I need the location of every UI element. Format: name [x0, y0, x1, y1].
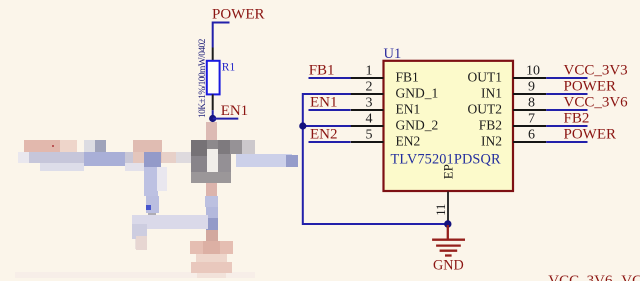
pin 6	[513, 128, 546, 143]
svg-text:7: 7	[528, 112, 535, 127]
svg-text:10K±1%/100mW/0402: 10K±1%/100mW/0402	[198, 38, 208, 118]
svg-text:EN2: EN2	[396, 134, 421, 149]
under-band light	[40, 163, 84, 171]
svg-text:EN1: EN1	[221, 103, 249, 119]
wire pin4 tee	[303, 125, 351, 127]
svg-text:2: 2	[366, 80, 373, 95]
svg-text:4: 4	[366, 112, 373, 127]
pin 2	[351, 80, 384, 95]
svg-text:EP: EP	[441, 164, 456, 179]
blue vertical left-mid	[144, 152, 161, 167]
pink blob A	[24, 140, 60, 152]
svg-text:1: 1	[366, 64, 373, 79]
svg-text:VCC_3V3: VCC_3V3	[564, 63, 628, 79]
horizontal lavender band	[18, 152, 29, 163]
pin 4	[351, 112, 384, 127]
lower lavender band	[132, 215, 208, 229]
pin 11	[434, 192, 448, 224]
pin 8	[513, 96, 546, 111]
wire EN1 to pin3	[309, 109, 351, 111]
svg-text:9: 9	[528, 80, 535, 95]
svg-text:FB2: FB2	[479, 118, 502, 133]
op-amp U1 body	[384, 61, 514, 191]
wire EN1 stub	[213, 118, 239, 120]
svg-text:VCC_3V6: VCC_3V6	[564, 95, 629, 111]
svg-text:IN2: IN2	[481, 134, 502, 149]
svg-text:GND: GND	[433, 258, 464, 274]
svg-text:OUT2: OUT2	[468, 102, 503, 117]
wire gnd net: pin2 corner, down, to pin11	[303, 94, 448, 224]
svg-text:R1: R1	[222, 62, 236, 74]
wire pin10	[546, 77, 587, 79]
right lavender vertical	[205, 196, 218, 207]
wire pin6	[546, 141, 587, 143]
wire pin8	[546, 109, 587, 111]
svg-text:OUT1: OUT1	[468, 70, 503, 85]
gray pair	[84, 140, 95, 152]
wire FB1	[309, 77, 352, 79]
pin 7	[513, 112, 546, 127]
node EN1 junction	[209, 115, 216, 122]
wire R1 bottom lead	[212, 94, 214, 110]
svg-text:POWER: POWER	[564, 79, 617, 95]
svg-text:3: 3	[366, 96, 373, 111]
svg-text:10: 10	[526, 64, 540, 79]
pin 3	[351, 96, 384, 111]
svg-text:11: 11	[434, 204, 448, 216]
svg-text:EN2: EN2	[310, 127, 338, 143]
svg-text:5: 5	[366, 128, 373, 143]
pin 5	[351, 128, 384, 143]
svg-text:GND_2: GND_2	[396, 118, 439, 133]
svg-text:FB1: FB1	[396, 70, 419, 85]
wire to node EN1	[212, 110, 214, 120]
svg-text:6: 6	[528, 128, 535, 143]
node pin11 junction	[444, 220, 451, 227]
wire R1 top lead	[212, 48, 214, 62]
blurred mosaic region (censored components)	[15, 122, 298, 278]
svg-text:EN1: EN1	[310, 95, 338, 111]
node gnd tee junction	[299, 122, 306, 129]
svg-text:FB1: FB1	[309, 63, 335, 79]
svg-text:VCC_3V6: VCC_3V6	[548, 273, 613, 281]
svg-text:POWER: POWER	[212, 7, 265, 23]
bottom pink blob (censored gnd)	[190, 241, 233, 254]
resistor R1	[207, 61, 220, 95]
pin 9	[513, 80, 546, 95]
wire EN2 to pin5	[309, 141, 351, 143]
svg-text:VCC: VCC	[621, 273, 640, 281]
svg-text:POWER: POWER	[564, 127, 617, 143]
pink blob C	[133, 140, 162, 152]
svg-text:IN1: IN1	[481, 86, 502, 101]
svg-text:EN1: EN1	[396, 102, 421, 117]
ground symbol	[432, 225, 465, 256]
faint bottom strip	[15, 272, 255, 278]
wire pin9	[546, 93, 587, 95]
pin 10	[513, 64, 546, 79]
svg-text:U1: U1	[384, 46, 402, 62]
dark gray blob (censored component)	[206, 122, 217, 140]
wire pin7	[546, 125, 587, 127]
svg-text:FB2: FB2	[564, 111, 590, 127]
svg-text:8: 8	[528, 96, 535, 111]
pin 1	[351, 64, 384, 79]
wire power L	[213, 23, 230, 48]
svg-text:GND_1: GND_1	[396, 86, 439, 101]
